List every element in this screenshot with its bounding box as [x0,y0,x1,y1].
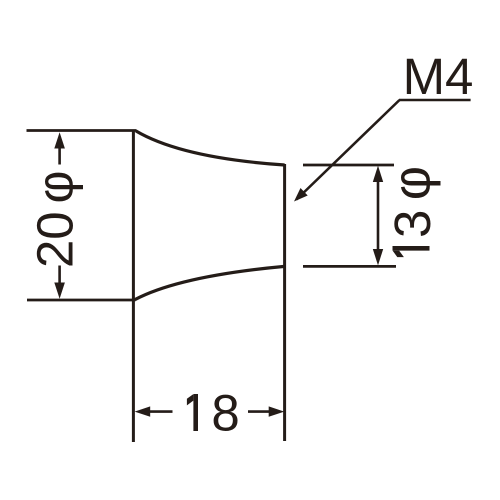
svg-text:20: 20 [26,211,83,268]
dim 18 left arrowhead [135,406,151,416]
dim 20phi down arrowhead [54,283,65,299]
dim 13phi down arrowhead [373,249,383,265]
dim 18 right arrowhead [269,406,285,416]
label 1 of 18 [187,394,198,431]
label 1 of 13phi [393,246,430,257]
M4 leader arrowhead [294,188,308,202]
dim 20phi lower arrow shaft [58,266,61,285]
knob top profile curve [136,131,285,165]
M4 underline [399,99,471,102]
dim 13phi bottom line [303,265,396,268]
knob right edge + right extension line [283,164,286,441]
svg-text:M4: M4 [403,48,474,105]
dim 18 left shaft [149,410,173,413]
svg-text:8: 8 [211,385,239,442]
dim 20phi bottom line [27,299,136,302]
dim 20phi top line [27,129,137,132]
M4 leader line [297,100,400,200]
svg-text:φ: φ [383,166,442,200]
dim 13phi vertical shaft [377,180,380,251]
knob bottom profile curve [135,266,285,299]
knob left edge + left extension line [132,130,135,442]
dim 20phi up arrowhead [54,132,65,148]
svg-text:φ: φ [26,170,83,203]
dim 13phi top line [303,164,394,167]
dim 20phi upper arrow shaft [58,147,61,165]
dim 13phi up arrowhead [373,166,383,182]
svg-text:3: 3 [384,210,441,238]
dim 18 right shaft [248,410,270,413]
